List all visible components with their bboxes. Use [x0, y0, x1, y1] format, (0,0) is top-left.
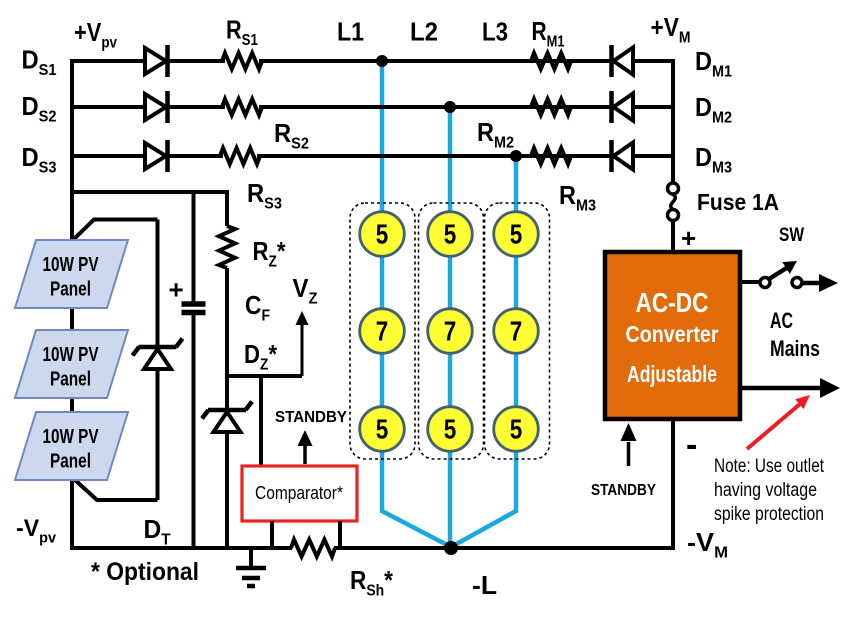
svg-text:AC: AC	[770, 308, 793, 333]
svg-text:7: 7	[376, 316, 389, 347]
svg-text:having voltage: having voltage	[714, 479, 817, 501]
svg-text:10W PV: 10W PV	[43, 344, 100, 366]
svg-text:L3: L3	[482, 17, 508, 47]
svg-text:5: 5	[510, 219, 523, 250]
svg-text:STANDBY: STANDBY	[591, 482, 657, 499]
svg-text:Comparator*: Comparator*	[255, 482, 343, 503]
svg-text:-L: -L	[472, 570, 497, 600]
svg-text:L2: L2	[410, 17, 438, 47]
svg-text:Panel: Panel	[50, 451, 91, 473]
svg-text:7: 7	[510, 316, 523, 347]
svg-text:5: 5	[376, 219, 389, 250]
svg-text:Adjustable: Adjustable	[627, 361, 717, 387]
svg-text:AC-DC: AC-DC	[636, 287, 709, 318]
svg-text:Note: Use outlet: Note: Use outlet	[714, 455, 824, 477]
svg-text:STANDBY: STANDBY	[275, 409, 347, 426]
svg-text:L1: L1	[337, 17, 364, 47]
svg-text:Converter: Converter	[626, 321, 719, 347]
svg-text:-: -	[686, 426, 697, 464]
svg-text:Panel: Panel	[50, 369, 91, 391]
svg-text:10W PV: 10W PV	[43, 426, 100, 448]
svg-text:* Optional: * Optional	[91, 558, 199, 586]
svg-text:5: 5	[444, 414, 457, 445]
svg-text:Mains: Mains	[770, 336, 820, 361]
svg-text:Fuse 1A: Fuse 1A	[697, 189, 779, 215]
svg-text:5: 5	[444, 219, 457, 250]
svg-text:5: 5	[510, 414, 523, 445]
svg-text:+: +	[169, 275, 184, 305]
svg-text:SW: SW	[779, 225, 804, 246]
svg-text:5: 5	[376, 414, 389, 445]
svg-text:+: +	[681, 223, 696, 253]
svg-text:Panel: Panel	[50, 279, 91, 301]
svg-text:7: 7	[444, 316, 457, 347]
svg-text:10W PV: 10W PV	[43, 254, 100, 276]
svg-text:spike protection: spike protection	[714, 503, 824, 525]
